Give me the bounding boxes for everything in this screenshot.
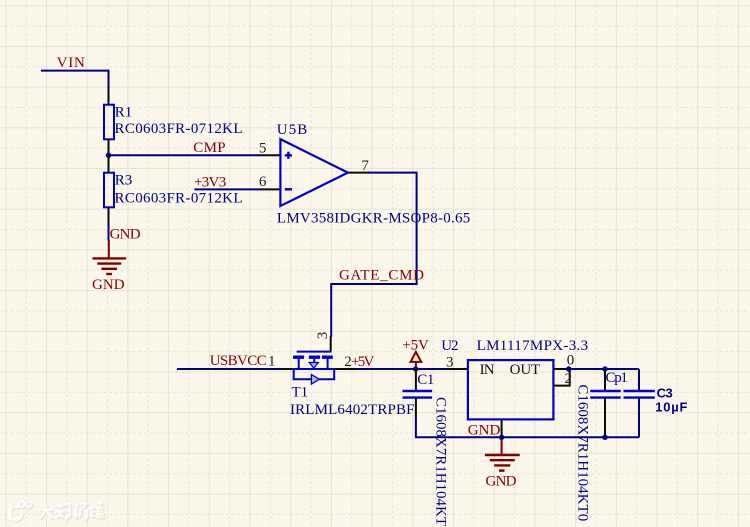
watermark text (stylized CJK "da shu kua jing")	[40, 502, 105, 520]
svg-text:C1608X7R1H104KT: C1608X7R1H104KT	[432, 397, 448, 526]
svg-text:C3: C3	[657, 385, 673, 400]
plus input marker	[285, 152, 292, 159]
wire to ground	[108, 225, 110, 241]
svg-text:2: 2	[565, 371, 573, 387]
pin R1.1	[108, 86, 110, 105]
svg-text:6: 6	[259, 174, 267, 190]
node junction GND	[499, 435, 504, 440]
svg-text:0: 0	[567, 353, 575, 369]
body loop	[294, 369, 335, 379]
pin U2.3 IN	[447, 368, 468, 370]
svg-text:GND: GND	[92, 277, 125, 293]
svg-text:U5B: U5B	[277, 122, 308, 138]
svg-text:IRLML6402TRPBF: IRLML6402TRPBF	[290, 402, 415, 418]
gate plate	[297, 351, 332, 353]
op-amp U5B	[280, 139, 348, 206]
main channel line	[293, 368, 335, 370]
minus input marker	[285, 188, 292, 190]
wire to U2	[355, 368, 449, 370]
svg-text:LMV358IDGKR-MSOP8-0.65: LMV358IDGKR-MSOP8-0.65	[277, 210, 470, 226]
node junction Cp1 top	[602, 366, 607, 371]
wire bottom rail	[416, 417, 639, 437]
pin U2.GND	[501, 419, 503, 437]
svg-text:VIN: VIN	[57, 55, 85, 71]
svg-text:RC0603FR-0712KL: RC0603FR-0712KL	[115, 190, 243, 206]
node junction OUT	[566, 366, 571, 371]
pin 6	[261, 188, 281, 190]
svg-text:+3V3: +3V3	[194, 174, 226, 190]
node junction +5V	[413, 366, 418, 371]
wire USBVCC	[177, 368, 293, 370]
resistor R1	[104, 105, 114, 140]
loop arrow right	[311, 375, 319, 385]
pin T1.3 gate pin	[330, 336, 332, 352]
svg-text:C1: C1	[417, 372, 434, 388]
svg-text:T1: T1	[292, 384, 309, 400]
svg-text:GATE_CMD: GATE_CMD	[339, 268, 424, 284]
svg-text:USBVCC: USBVCC	[210, 353, 267, 369]
capacitor Cp1	[604, 369, 606, 390]
wire OUT net	[569, 368, 639, 370]
svg-text:7: 7	[361, 158, 369, 174]
body arrow down	[309, 363, 318, 369]
ground symbol (U2)	[485, 440, 520, 471]
pin U2.2 OUT tab	[553, 369, 569, 386]
pin T1.2	[334, 368, 356, 370]
svg-text:C1608X7R1H104KT0: C1608X7R1H104KT0	[575, 384, 591, 521]
wire output to GATE_CMD	[331, 173, 416, 337]
svg-text:R1: R1	[115, 104, 133, 120]
pin 7 output	[348, 172, 369, 174]
svg-text:3: 3	[446, 354, 454, 370]
ground symbol (R3)	[93, 240, 127, 274]
svg-text:U2: U2	[441, 338, 458, 354]
svg-text:+5V: +5V	[351, 354, 375, 370]
pin T1.1	[282, 368, 293, 370]
wire CMP	[109, 154, 262, 156]
svg-text:R3: R3	[115, 172, 133, 188]
svg-text:RC0603FR-0712KL: RC0603FR-0712KL	[115, 121, 243, 137]
regulator U2	[468, 360, 554, 419]
svg-text:GND: GND	[468, 423, 501, 439]
pin R1.2	[108, 139, 110, 155]
svg-text:OUT: OUT	[510, 362, 541, 378]
drain/source stubs	[298, 359, 300, 369]
pin 5	[261, 154, 281, 156]
svg-text:IN: IN	[480, 362, 495, 378]
capacitor C3	[638, 369, 640, 390]
pin U2.0 OUT	[553, 368, 568, 370]
svg-text:GND: GND	[486, 473, 517, 489]
svg-text:3: 3	[315, 332, 331, 340]
svg-text:10µF: 10µF	[655, 399, 687, 414]
svg-text:Cp1: Cp1	[606, 370, 628, 386]
wire +3V3	[194, 188, 261, 190]
capacitor C1	[415, 369, 417, 390]
channel bars	[293, 356, 304, 359]
svg-text:1: 1	[268, 353, 276, 369]
resistor R3	[104, 173, 114, 208]
transistor T1 (PMOS)	[293, 352, 335, 380]
svg-text:CMP: CMP	[193, 140, 225, 156]
node junction A	[106, 153, 111, 158]
watermark logo	[9, 501, 105, 521]
node junction Cp1 bottom	[602, 435, 607, 440]
pin R3.1	[108, 155, 110, 172]
svg-text:GND: GND	[110, 226, 141, 242]
svg-text:5: 5	[259, 140, 267, 156]
pin R3.2	[108, 207, 110, 226]
wire VIN horizontal and down to R1	[41, 71, 109, 88]
